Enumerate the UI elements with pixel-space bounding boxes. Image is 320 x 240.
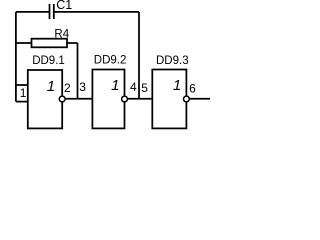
wire: C1 right lead (top rail right) — [54, 11, 139, 13]
inverter DD9.3 body — [152, 70, 186, 129]
svg-text:1: 1 — [173, 77, 181, 94]
wire: DD9.2 pin 4 to DD9.3 pin 5 — [128, 98, 152, 100]
svg-text:1: 1 — [20, 86, 27, 100]
wire: DD9.3 pin 6 output to right edge — [190, 98, 210, 100]
svg-text:DD9.3: DD9.3 — [156, 55, 189, 67]
wire: DD9.1 pin 2 to DD9.2 pin 3 — [66, 98, 93, 100]
inversion bubble at DD9.2 output — [122, 96, 128, 102]
wire: R4 left lead from left vertical — [16, 42, 32, 44]
svg-text:4: 4 — [130, 80, 137, 94]
svg-text:1: 1 — [111, 77, 119, 94]
wire: C1 left lead (top rail left) — [16, 11, 50, 13]
svg-text:3: 3 — [79, 80, 86, 94]
wire: R4 right lead — [67, 42, 78, 44]
svg-text:R4: R4 — [54, 28, 69, 40]
wire: pin 1 frame top segment — [16, 84, 28, 86]
wire: DD9.1 input pin 1 line — [16, 101, 28, 103]
inversion bubble at DD9.1 output — [59, 96, 65, 102]
svg-text:2: 2 — [64, 81, 71, 95]
svg-text:5: 5 — [141, 81, 148, 95]
resistor R4 body — [32, 39, 68, 48]
wire: vertical drop from R4 to node between DD9.1 and DD9.2 — [77, 43, 79, 99]
wire: right vertical from C1 down to node between DD9.2 and DD9.3 — [138, 12, 140, 99]
inverter DD9.2 body — [92, 70, 124, 129]
svg-text:C1: C1 — [56, 0, 72, 12]
svg-text:1: 1 — [47, 78, 55, 95]
wire: left vertical from C1 down to DD9.1 input — [15, 12, 17, 102]
capacitor C1 plates — [50, 4, 54, 19]
inversion bubble at DD9.3 output — [184, 96, 190, 102]
svg-text:DD9.2: DD9.2 — [94, 54, 127, 66]
inverter DD9.1 body — [28, 70, 62, 128]
svg-text:DD9.1: DD9.1 — [32, 55, 65, 67]
svg-text:6: 6 — [189, 82, 196, 96]
